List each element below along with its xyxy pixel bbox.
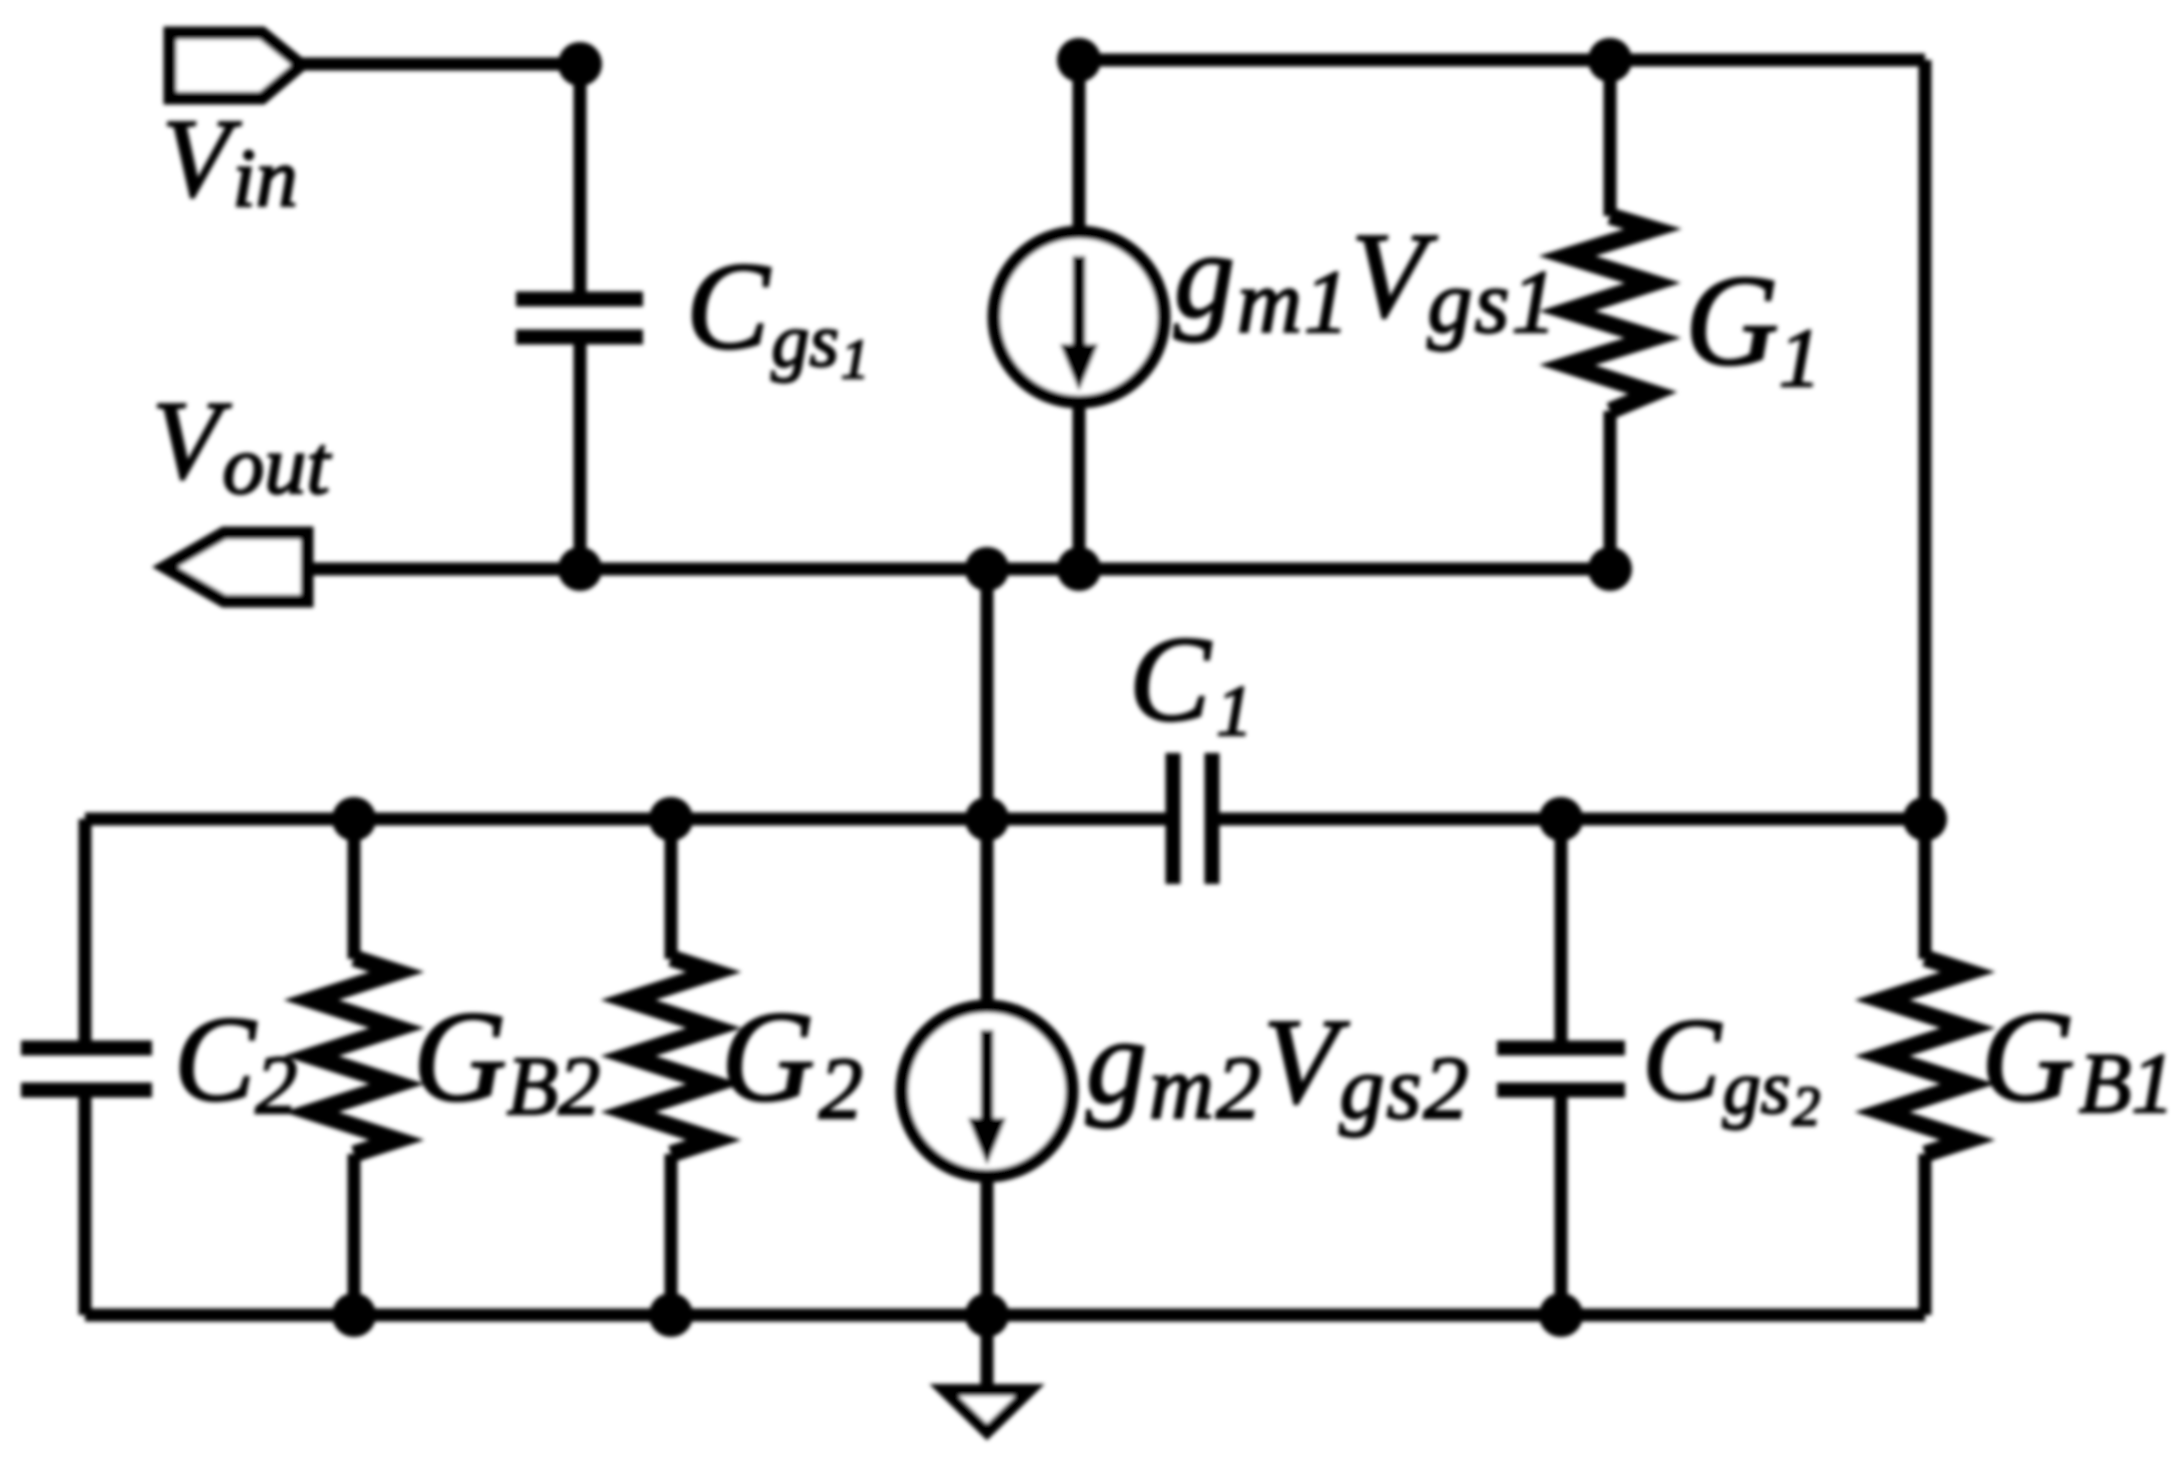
svg-text:Cgs2: Cgs2: [1642, 994, 1820, 1138]
wire top bus: [1079, 54, 1925, 67]
node A (Vin / Cgs1 top junction): [558, 42, 602, 86]
svg-text:G1: G1: [1685, 249, 1821, 405]
resistor GB2 bottom lead: [348, 1154, 361, 1315]
svg-text:C1: C1: [1129, 612, 1252, 751]
ground stub: [981, 1315, 994, 1390]
wire center rail upper (Vout to middle bus): [981, 569, 994, 819]
resistor G1 zigzag: [1567, 216, 1653, 411]
resistor G1 bottom lead: [1604, 411, 1617, 569]
resistor G1 top lead: [1604, 60, 1617, 216]
svg-text:gm2Vgs2: gm2Vgs2: [1086, 994, 1471, 1138]
svg-text:GB1: GB1: [1981, 985, 2174, 1131]
wire Vin terminal to node A: [301, 58, 580, 71]
wire middle bus left of C1: [85, 813, 1166, 826]
node gm1 bottom junction: [1057, 547, 1101, 591]
current source U2 gm2Vgs2 top lead: [981, 819, 994, 1008]
terminal Vout: [165, 533, 307, 601]
wire Cgs1 bottom lead: [574, 340, 587, 569]
capacitor Cgs2: [1497, 1048, 1625, 1090]
node Cgs2 top junction: [1539, 797, 1583, 841]
current source U1 arrow: [1073, 256, 1086, 350]
capacitor C2 left rail top lead: [79, 819, 92, 1041]
current source U2 gm2Vgs2 circle: [902, 1006, 1072, 1176]
resistor GB2 top lead: [348, 819, 361, 959]
wire middle bus right of C1: [1219, 813, 1925, 826]
capacitor C1: [1173, 753, 1212, 884]
wire Vout bus: [307, 563, 1610, 576]
node gm1 top junction: [1057, 38, 1101, 82]
svg-text:C2: C2: [174, 992, 297, 1132]
capacitor C2: [21, 1048, 152, 1090]
resistor G2 bottom lead: [665, 1154, 678, 1315]
capacitor Cgs1: [516, 299, 643, 337]
current source U2 bottom lead: [981, 1174, 994, 1315]
node GB2 top junction: [332, 797, 376, 841]
current source U1 bottom lead: [1073, 400, 1086, 569]
resistor G2 top lead: [665, 819, 678, 959]
wire right rail: [1919, 60, 1932, 819]
resistor G2 zigzag: [628, 958, 714, 1154]
node gm2 bottom / ground junction: [965, 1293, 1009, 1337]
svg-text:Vin: Vin: [162, 97, 298, 225]
resistor GB1 zigzag: [1882, 958, 1968, 1154]
svg-text:gm1Vgs1: gm1Vgs1: [1174, 208, 1559, 352]
wire bottom bus: [85, 1309, 1925, 1322]
current source U1 gm1Vgs1 circle: [994, 232, 1164, 402]
svg-text:G2: G2: [721, 985, 863, 1138]
capacitor Cgs2 bottom lead: [1555, 1097, 1568, 1315]
svg-text:Vout: Vout: [152, 379, 332, 512]
resistor GB1 top lead: [1919, 819, 1932, 959]
node Cgs2 bottom junction: [1539, 1293, 1583, 1337]
capacitor C2 bottom lead: [79, 1097, 92, 1315]
terminal Vin: [170, 33, 301, 98]
node G1 bottom junction: [1588, 547, 1632, 591]
node G2 top junction: [649, 797, 693, 841]
node G2 bottom junction: [649, 1293, 693, 1337]
node center / gm2 top junction: [965, 797, 1009, 841]
resistor GB1 bottom lead: [1919, 1154, 1932, 1315]
wire Cgs1 top lead: [574, 64, 587, 294]
node Vout center junction: [965, 547, 1009, 591]
node right rail / GB1 junction: [1903, 797, 1947, 841]
ground symbol: [944, 1390, 1030, 1432]
node G1 top junction: [1588, 38, 1632, 82]
svg-text:GB2: GB2: [413, 985, 600, 1133]
current source U1 gm1Vgs1 top lead: [1073, 60, 1086, 234]
node Vout/Cgs1 junction: [558, 547, 602, 591]
resistor GB2 zigzag: [311, 958, 397, 1154]
node GB2 bottom junction: [332, 1293, 376, 1337]
current source U2 arrow: [981, 1030, 994, 1124]
capacitor Cgs2 top lead: [1555, 819, 1568, 1041]
svg-text:Cgs1: Cgs1: [686, 238, 869, 391]
